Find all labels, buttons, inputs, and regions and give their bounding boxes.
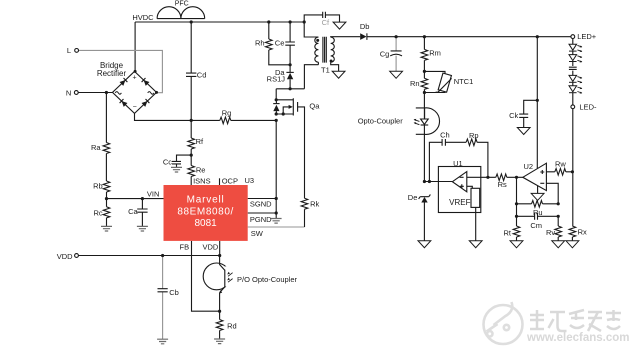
svg-text:PFC: PFC <box>175 0 189 7</box>
zener De <box>419 195 431 203</box>
node Rn-NTC bottom junction <box>423 91 426 94</box>
terminal N <box>74 91 78 95</box>
svg-text:P/O Opto-Coupler: P/O Opto-Coupler <box>237 275 298 284</box>
capacitor Cb <box>158 289 168 292</box>
ground under Cb <box>157 339 168 344</box>
svg-text:Rv: Rv <box>546 228 555 237</box>
svg-text:Rb: Rb <box>93 182 103 191</box>
node Qa bulk tie <box>282 112 285 115</box>
transformer T1 primary winding <box>315 37 319 62</box>
wire HVDC bus <box>135 21 304 23</box>
chip pin stub SGND <box>248 198 277 200</box>
ground triangle at Rv <box>552 241 565 248</box>
opto-coupler body arc <box>416 108 440 135</box>
node U1 minus-feedback junction <box>486 176 489 179</box>
wire bridge minus to Rg to Qa source <box>135 113 277 120</box>
wire U2 minus to Ru Cm <box>546 183 558 204</box>
opto-coupler LED <box>421 119 429 124</box>
node Da anode junction <box>289 87 292 90</box>
wire Ru Cm left column <box>516 177 518 216</box>
node Db-Cg junction <box>395 35 398 38</box>
wire NTC1 parallel branch <box>424 71 445 92</box>
svg-text:Cb: Cb <box>169 288 179 297</box>
wire N to bridge <box>78 92 112 94</box>
watermark logo <box>484 302 523 344</box>
wire Rd branch <box>219 311 221 339</box>
svg-text:SW: SW <box>251 229 264 238</box>
transformer T1 secondary winding <box>331 37 335 62</box>
opto-coupler LED bar <box>421 124 429 126</box>
wire Ce branch <box>289 22 291 65</box>
wire Rn segment <box>423 71 425 92</box>
node Rg-Cd line junction <box>190 119 193 122</box>
resistor Rx <box>569 226 576 237</box>
resistor Rt <box>513 226 520 237</box>
resistor Rc <box>103 207 110 218</box>
node Qa drain stub <box>275 98 278 101</box>
bridge rectifier diamond <box>113 71 157 113</box>
wire LED- to Rx to ground <box>571 109 573 241</box>
svg-text:SGND: SGND <box>250 200 272 209</box>
chip pin stub OCP <box>219 178 221 185</box>
capacitor Cc <box>172 161 181 164</box>
terminal VDD <box>75 254 79 258</box>
node bridge right <box>155 91 158 94</box>
op-amp U1 minus <box>460 176 464 178</box>
svg-text:Cf: Cf <box>322 18 330 27</box>
P/O opto body arc <box>203 263 232 290</box>
svg-text:Re: Re <box>196 166 206 175</box>
svg-text:8081: 8081 <box>194 218 217 229</box>
node Qa source stub <box>275 112 278 115</box>
node FB-emitter-Rd junction <box>218 310 221 313</box>
wire VDD rail <box>78 255 219 257</box>
LED string break marks <box>569 67 577 69</box>
svg-text:Cg: Cg <box>380 49 390 58</box>
svg-text:T1: T1 <box>321 66 330 75</box>
svg-text:Cc: Cc <box>163 157 172 166</box>
wire Rt to ground <box>516 216 518 241</box>
svg-text:Ch: Ch <box>440 131 450 140</box>
chip U3 Marvell <box>164 185 248 241</box>
resistor Rf <box>188 138 195 149</box>
svg-text:www.elecfans.com: www.elecfans.com <box>526 332 629 344</box>
capacitor Cd <box>186 73 196 76</box>
bridge diode D4 <box>141 99 149 107</box>
resistor Rv <box>555 226 562 237</box>
svg-text:Rg: Rg <box>222 109 232 118</box>
capacitor Ch <box>442 139 445 146</box>
svg-text:Marvell: Marvell <box>187 195 225 206</box>
svg-text:FB: FB <box>180 242 190 251</box>
node Rg-source junction <box>275 119 278 122</box>
bridge ac squiggle left <box>115 92 121 95</box>
node bus-Ce junction <box>289 20 292 23</box>
node bus-Cf junction <box>303 20 306 23</box>
wire U1 plus to VREF <box>467 186 473 188</box>
node SGND junction <box>275 197 278 200</box>
ground under Cc <box>171 167 182 172</box>
resistor Rs <box>496 174 507 181</box>
svg-text:Rd: Rd <box>227 322 237 331</box>
ground triangle at VREF <box>469 241 482 248</box>
svg-text:L: L <box>67 46 71 55</box>
wire gate riser with Rk <box>298 107 305 227</box>
svg-text:Opto-Coupler: Opto-Coupler <box>358 116 404 125</box>
svg-text:U3: U3 <box>245 176 255 185</box>
node Cb-VDD junction <box>161 254 164 257</box>
ground triangle at Cf <box>333 22 346 29</box>
resistor Rd <box>216 320 223 331</box>
wire primary bottom elbow <box>317 62 319 64</box>
wire U1 minus input <box>467 176 523 178</box>
svg-text:Rp: Rp <box>469 131 479 140</box>
resistor Rk <box>301 198 308 209</box>
ground triangle at Rt <box>510 241 523 248</box>
svg-text:Ra: Ra <box>91 143 101 152</box>
resistor Re <box>188 166 195 177</box>
VREF box <box>471 188 480 207</box>
wire Ru line <box>517 203 559 205</box>
node bus-U2 supply junction <box>536 35 539 38</box>
node N-Ra junction <box>105 91 108 94</box>
transistor Qa mosfet <box>276 98 297 115</box>
wire VIN line <box>107 198 164 200</box>
wire U2 supply from bus <box>536 37 538 169</box>
resistor Rh <box>266 39 273 50</box>
node U1 output-De junction <box>423 180 426 183</box>
terminal LED- <box>571 105 575 109</box>
wire Ce bottom to Da <box>289 65 291 89</box>
node Cm left junction <box>515 215 518 218</box>
resistor Rp <box>466 139 477 146</box>
wire Rh branch <box>269 22 290 65</box>
node Ca-VIN junction <box>141 197 144 200</box>
op-amp U2 minus <box>540 182 544 184</box>
capacitor Cg polarized <box>390 51 402 56</box>
svg-text:Ce: Ce <box>275 39 285 48</box>
capacitor Cm <box>535 213 538 220</box>
svg-text:VREF: VREF <box>449 198 470 207</box>
svg-text:−: − <box>133 104 137 111</box>
ground triangle at U2 <box>531 193 544 200</box>
U1 box <box>438 167 480 213</box>
wire LED string segments <box>572 39 574 105</box>
node Rh-Ce bottom junction <box>289 63 292 66</box>
svg-text:Rh: Rh <box>255 38 265 47</box>
terminal LED+ <box>571 35 575 39</box>
bridge diode D1 <box>119 78 127 86</box>
svg-text:Rm: Rm <box>429 48 441 57</box>
resistor Rw <box>555 169 566 176</box>
node T1 primary polarity dot <box>316 39 319 42</box>
svg-text:N: N <box>66 88 71 97</box>
wire Cb branch <box>162 256 164 340</box>
wire HVDC corner down to bridge <box>134 22 136 71</box>
diode Da <box>286 72 293 79</box>
svg-text:LED+: LED+ <box>577 32 597 41</box>
inductor PFC <box>157 7 205 19</box>
node T1 secondary polarity dot <box>330 60 333 63</box>
node Cm right junction <box>557 215 560 218</box>
wire Ra column <box>105 93 107 227</box>
wire bus corner to Cf <box>304 15 339 22</box>
wire L loop <box>78 50 162 92</box>
svg-text:U1: U1 <box>453 159 463 168</box>
wire Cg branch <box>395 37 397 72</box>
chip pin stub PGND <box>248 213 277 219</box>
bridge diode D2 <box>142 78 150 86</box>
transistor P/O opto <box>219 270 225 311</box>
svg-text:Ck: Ck <box>509 111 518 120</box>
node bus-Cd junction <box>190 20 193 23</box>
wire Cm line <box>517 215 559 217</box>
svg-text:Rx: Rx <box>578 227 587 236</box>
wire opto LED line <box>423 93 425 182</box>
node bridge top <box>134 70 137 73</box>
resistor Ra <box>103 143 110 154</box>
ground triangle at Rx <box>566 241 579 248</box>
wire Ck branch <box>524 100 538 127</box>
opto-coupler LED arrows <box>414 119 420 125</box>
resistor Ru <box>532 201 543 208</box>
svg-text:NTC1: NTC1 <box>454 77 474 86</box>
svg-text:OCP: OCP <box>222 177 238 186</box>
node Rb-Rc-VIN junction <box>105 197 108 200</box>
svg-text:Db: Db <box>360 22 370 31</box>
wire Cc branch <box>177 155 192 167</box>
resistor Rm <box>421 49 428 60</box>
ground triangle at Cg <box>390 71 403 78</box>
wire De to ground <box>423 203 425 241</box>
capacitor Ce <box>285 42 295 45</box>
svg-text:HVDC: HVDC <box>132 13 154 22</box>
ground under Ca <box>137 226 148 231</box>
node bus-Rh junction <box>267 20 270 23</box>
capacitor Cf <box>323 12 326 18</box>
svg-text:Ca: Ca <box>128 207 138 216</box>
bridge ac squiggle right <box>148 92 154 95</box>
svg-text:+: + <box>132 74 136 81</box>
svg-text:Rw: Rw <box>555 159 566 168</box>
wire Rv to ground <box>557 216 559 241</box>
diode Db <box>360 33 367 40</box>
chip U3 text <box>177 195 234 230</box>
node Rw-LED- junction <box>571 170 574 173</box>
bridge diode D3 <box>120 99 128 107</box>
op-amp U2 triangle <box>523 163 547 190</box>
svg-text:RS1J: RS1J <box>267 74 286 83</box>
node Rf-Re-Cc junction <box>190 154 193 157</box>
thermistor NTC1 <box>436 73 452 92</box>
node bus-Rm junction <box>423 35 426 38</box>
LED D5 <box>569 44 582 52</box>
P/O opto light arrows <box>227 272 232 283</box>
svg-text:Cm: Cm <box>530 221 542 230</box>
wire U1 output line <box>424 181 452 183</box>
svg-text:VIN: VIN <box>147 190 160 199</box>
wire SW to gate riser <box>248 226 305 228</box>
svg-text:Qa: Qa <box>309 101 320 110</box>
wire Da node to drain and primary bottom <box>276 65 318 100</box>
op-amp U1 triangle <box>452 172 466 192</box>
svg-text:Rs: Rs <box>498 180 507 189</box>
op-amp U2 plus <box>540 170 544 174</box>
wire VREF to ground <box>475 207 477 240</box>
resistor Rg <box>220 117 231 124</box>
wire VDD stub <box>219 241 221 256</box>
wire Rm branch <box>423 37 425 72</box>
svg-text:VDD: VDD <box>203 242 219 251</box>
body diode of Qa <box>273 100 279 114</box>
ground under Rd <box>214 339 225 344</box>
ground under Rc <box>101 226 112 231</box>
svg-text:Cd: Cd <box>197 71 207 80</box>
wire capacitor Ca branch <box>141 199 143 227</box>
svg-text:Rn: Rn <box>410 79 420 88</box>
capacitor Ck <box>519 114 528 117</box>
wire feedback Ch Rp <box>429 142 488 181</box>
capacitor Ca <box>137 209 147 212</box>
resistor Rb <box>103 181 110 192</box>
node PGND junction <box>275 211 278 214</box>
svg-text:Rk: Rk <box>310 199 319 208</box>
node Ck tap junction <box>536 99 539 102</box>
node feedback tap junction <box>428 180 431 183</box>
svg-text:De: De <box>408 193 418 202</box>
svg-text:Ru: Ru <box>533 208 543 217</box>
LED D6 <box>569 55 582 63</box>
svg-text:LED-: LED- <box>579 102 597 111</box>
wire U2 ground stem <box>537 186 539 193</box>
svg-text:VDD: VDD <box>57 252 73 261</box>
svg-text:Rt: Rt <box>504 229 512 238</box>
svg-text:PGND: PGND <box>250 215 272 224</box>
wire secondary top to Db and output bus <box>331 36 571 39</box>
wire FB loop <box>192 241 220 311</box>
resistor Rn <box>421 78 428 89</box>
op-amp U1 plus <box>460 184 464 188</box>
ground at PGND <box>271 219 282 224</box>
node Ru left junction <box>515 202 518 205</box>
node Rn-NTC top junction <box>423 70 426 73</box>
LED D8 <box>569 86 582 94</box>
node VDD pin junction <box>218 254 221 257</box>
ground triangle at De <box>418 241 431 248</box>
svg-text:Rectifier: Rectifier <box>97 69 127 78</box>
svg-text:88EM8080/: 88EM8080/ <box>177 206 234 217</box>
svg-text:U2: U2 <box>524 162 534 171</box>
LED D7 <box>569 75 582 83</box>
wire opto collector <box>220 256 225 271</box>
svg-text:ISNS: ISNS <box>193 177 211 186</box>
svg-text:Rc: Rc <box>94 209 103 218</box>
terminal L <box>75 49 79 53</box>
wire bus to primary top <box>304 22 318 37</box>
wire Cd Rf Re column <box>190 22 192 185</box>
wire secondary bottom to ground <box>331 62 339 71</box>
ground triangle at T1 secondary <box>332 71 345 78</box>
wire U2 plus input with Rw <box>546 171 572 173</box>
transformer T1 core <box>323 37 326 63</box>
node U2 output junction <box>515 176 518 179</box>
node Ru right junction <box>557 202 560 205</box>
wire Qa source to SGND <box>275 120 277 213</box>
watermark chinese glyphs <box>530 310 621 331</box>
ground triangle at Ck <box>517 128 530 135</box>
svg-text:Rf: Rf <box>196 137 204 146</box>
